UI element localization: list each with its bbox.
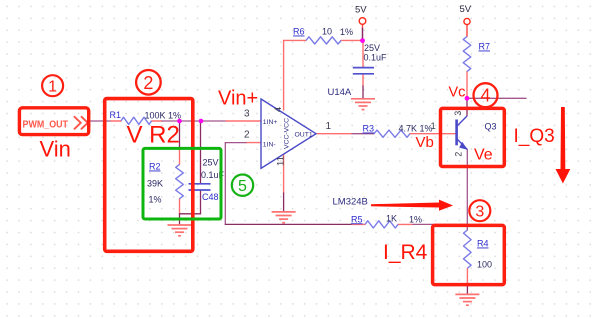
svg-text:Vin+: Vin+	[218, 88, 258, 110]
svg-text:1%: 1%	[149, 195, 162, 205]
svg-text:25V: 25V	[364, 43, 380, 53]
wire net Vin: port to R1	[91, 120, 112, 122]
svg-text:Q3: Q3	[485, 122, 497, 132]
svg-text:39K: 39K	[147, 179, 163, 189]
svg-text:1IN+: 1IN+	[263, 119, 278, 126]
svg-text:3: 3	[475, 204, 484, 221]
node junction R2	[177, 119, 182, 124]
wire lead R2 top	[179, 148, 181, 164]
svg-text:2: 2	[244, 130, 250, 141]
svg-text:I_Q3: I_Q3	[514, 126, 555, 147]
svg-text:2: 2	[143, 73, 153, 93]
wire lead R4 bottom	[466, 269, 468, 285]
resistor R2	[176, 164, 184, 198]
resistor R7	[463, 37, 471, 72]
annotation arrow right near LM324B	[371, 200, 453, 211]
capacitor bypass 0.1uF plates	[353, 67, 374, 69]
annotation box port PWM_OUT	[19, 108, 88, 135]
transistor Q3 collector diagonal	[457, 116, 467, 127]
wire lead op-amp output	[316, 133, 352, 135]
wire lead 5V supply 2 to R7	[466, 25, 468, 37]
svg-text:Vc: Vc	[449, 85, 466, 101]
wire net Vin+ to op-amp pin3	[162, 120, 226, 122]
svg-text:R5: R5	[351, 214, 363, 224]
annotation circle 4	[474, 83, 498, 107]
svg-text:4: 4	[480, 86, 490, 106]
svg-text:R2: R2	[149, 162, 161, 172]
wire net collector to Vc node	[466, 98, 468, 115]
wire net R2 to ground	[179, 214, 181, 225]
wire lead R5 right	[398, 223, 413, 225]
ground (R4)	[455, 294, 479, 305]
wire lead R1 right	[152, 120, 163, 122]
svg-text:4: 4	[273, 107, 284, 112]
resistor R5	[365, 221, 398, 228]
svg-text:Ve: Ve	[474, 147, 493, 164]
node junction 5V R6	[360, 38, 365, 43]
node junction C48	[199, 119, 204, 124]
wire lead R5 left	[352, 223, 365, 225]
ground (bypass cap)	[351, 99, 375, 110]
op-amp U14A triangle	[261, 99, 316, 168]
svg-text:PWM_OUT: PWM_OUT	[23, 120, 69, 131]
svg-text:11: 11	[276, 156, 287, 166]
power 5V symbol 1	[359, 18, 366, 25]
svg-text:OUT1: OUT1	[295, 132, 313, 139]
transistor Q3 emitter diagonal	[457, 139, 468, 150]
wire net Vc stub right	[467, 97, 526, 99]
svg-text:1%: 1%	[409, 215, 422, 225]
svg-text:U14A: U14A	[328, 87, 352, 98]
svg-text:1: 1	[431, 121, 436, 132]
ground (R2 C48)	[168, 225, 192, 236]
svg-text:100: 100	[477, 260, 492, 270]
transistor Q3 emitter arrow	[459, 142, 468, 150]
svg-text:3: 3	[244, 108, 250, 119]
wire lead bypass cap bottom	[362, 74, 364, 86]
svg-text:2: 2	[453, 152, 463, 157]
capacitor C48 plates	[189, 183, 211, 185]
svg-text:5: 5	[238, 178, 247, 195]
svg-text:1%: 1%	[340, 27, 353, 37]
wire net R4 to ground	[466, 284, 468, 294]
wire lead op-amp pin11	[283, 155, 285, 194]
resistor R1	[121, 117, 152, 124]
wire lead R3 right to Q3 base	[410, 133, 456, 135]
svg-text:10: 10	[322, 27, 332, 37]
wire lead R1 left	[111, 120, 121, 122]
resistor R6	[306, 37, 341, 44]
svg-text:R1: R1	[110, 110, 122, 120]
port PWM_OUT chevron	[75, 117, 88, 129]
svg-text:I_R4: I_R4	[383, 241, 428, 264]
svg-text:LM324B: LM324B	[333, 197, 368, 208]
annotation box Q3	[441, 108, 505, 166]
svg-text:1K: 1K	[386, 214, 397, 224]
wire net feedback vertical	[224, 143, 226, 225]
svg-text:VCC-VCC: VCC-VCC	[284, 118, 291, 149]
wire net pin11 to ground	[283, 193, 285, 212]
wire lead pin3	[226, 120, 261, 122]
wire net R5 to emitter node	[413, 223, 467, 225]
resistor R3	[374, 130, 410, 137]
wire net cap to ground	[362, 86, 364, 98]
svg-text:R3: R3	[363, 124, 375, 134]
svg-text:Vb: Vb	[416, 134, 434, 151]
svg-text:1: 1	[48, 79, 57, 96]
wire lead R6 left and op-amp pin4 feed	[284, 40, 306, 110]
wire lead R7 bottom to Vc node	[466, 72, 468, 99]
wire net C48 bottom to ground join	[180, 191, 201, 214]
SCHEMATIC TEXT	[23, 4, 497, 270]
svg-text:5V: 5V	[355, 5, 367, 16]
annotation arrow down I_Q3	[556, 107, 571, 184]
annotation circle 1	[42, 75, 63, 96]
svg-text:25V: 25V	[203, 158, 219, 168]
wire net C48 top lead	[200, 121, 202, 183]
annotation circle 2	[136, 70, 161, 95]
svg-text:V R2: V R2	[127, 122, 180, 149]
wire net output to R3	[352, 133, 374, 135]
svg-text:3: 3	[453, 111, 463, 116]
wire net 5V to junction	[362, 29, 364, 41]
svg-text:R4: R4	[477, 239, 489, 249]
svg-text:100K 1%: 100K 1%	[145, 111, 182, 121]
wire lead R6 right	[341, 39, 363, 41]
svg-text:Vin: Vin	[40, 137, 71, 162]
transistor Q2 base bar	[455, 120, 458, 146]
svg-text:1IN-: 1IN-	[263, 142, 276, 149]
annotation box 2 around R1 R2	[105, 99, 193, 252]
svg-text:R6: R6	[293, 27, 305, 37]
wire net emitter to R4	[466, 150, 468, 231]
wire lead 5V supply 1	[362, 24, 364, 28]
svg-text:0.1uF: 0.1uF	[364, 53, 388, 63]
wire lead bypass cap top	[362, 41, 364, 67]
svg-text:R7: R7	[479, 42, 491, 52]
wire net pin2 feedback horizontal	[225, 142, 246, 144]
resistor R4	[464, 230, 472, 268]
power 5V symbol 2	[464, 18, 470, 24]
svg-text:C48: C48	[202, 192, 219, 202]
svg-text:4.7K 1%: 4.7K 1%	[399, 124, 433, 134]
node junction Vc	[465, 96, 470, 101]
annotation circle 5 green	[232, 175, 253, 196]
annotation green box around R2 C48	[143, 148, 221, 219]
ground (op-amp pin11)	[272, 212, 296, 223]
annotation box R4	[433, 225, 505, 284]
annotation circle 3	[469, 200, 490, 221]
wire net R2 top lead	[179, 121, 181, 148]
wire net feedback bottom to R5	[225, 223, 352, 225]
svg-text:1: 1	[326, 121, 332, 132]
wire lead pin2	[246, 142, 261, 144]
svg-text:5V: 5V	[460, 4, 472, 15]
wire lead R2 bottom	[179, 199, 181, 214]
